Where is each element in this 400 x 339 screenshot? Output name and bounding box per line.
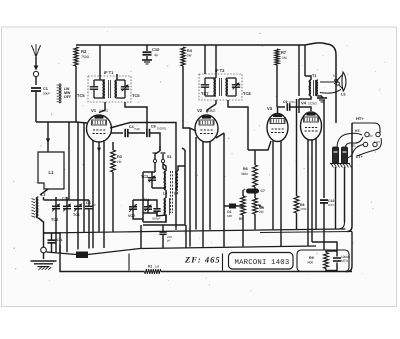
wire: V3 grid line: [248, 141, 271, 150]
resistor R5: [241, 196, 246, 215]
coil L2: [40, 189, 48, 195]
resistor R6: [253, 165, 258, 187]
wire: R3 to chassis: [112, 172, 114, 232]
wire: T1 primary top: [305, 76, 311, 80]
svg-text:1N5G: 1N5G: [206, 109, 216, 113]
wire: bus to IFT1 primary: [99, 45, 101, 80]
capacitor C9 padder: [153, 208, 160, 210]
wire: chassis bus A: [44, 229, 346, 233]
capacitor C5 padding: [159, 231, 166, 233]
wire: L2 to earth: [39, 218, 44, 247]
capacitor C14 electrolytic: [333, 147, 339, 163]
wire: [128, 132, 145, 134]
node: earth terminal circle: [41, 247, 47, 253]
svg-text:C11: C11: [57, 238, 63, 242]
svg-text:TC6: TC6: [132, 93, 140, 98]
trimmer TC7: [201, 84, 209, 86]
IF transformer T1 windings: [103, 80, 105, 98]
wire: [35, 77, 37, 85]
capacitor C15 electrolytic: [342, 147, 348, 163]
trimmer TC8: [232, 84, 240, 86]
wire: junction horizontal: [36, 121, 76, 123]
svg-text:TC5: TC5: [77, 93, 85, 98]
wires oscillator bottom: [133, 200, 157, 204]
svg-text:1M: 1M: [155, 265, 160, 269]
wire: [112, 142, 114, 150]
wire: R7 to V3 top: [276, 65, 278, 107]
hatch on L2 core: [32, 199, 36, 218]
svg-text:470k: 470k: [300, 207, 307, 211]
wire: IFT2 right down: [228, 100, 248, 150]
capacitor C9 coupling: [286, 103, 288, 111]
svg-text:IF T1: IF T1: [104, 70, 114, 75]
svg-text:50pF: 50pF: [43, 92, 50, 96]
wire: HT+ bracket: [352, 123, 380, 133]
trimmer TC6: [121, 86, 129, 88]
coil L4: [176, 171, 178, 190]
wire: antenna down: [35, 91, 37, 122]
capacitor C13: [336, 250, 338, 257]
capacitor C6: [229, 204, 236, 209]
valve V1 1A7G: [87, 115, 112, 142]
trimmer TC3: [148, 177, 156, 179]
svg-text:V1: V1: [91, 108, 97, 113]
wire: V3 top: [277, 107, 279, 114]
wire: C1 branch: [44, 233, 61, 253]
svg-text:T1: T1: [312, 74, 316, 78]
svg-text:75pF: 75pF: [134, 127, 141, 131]
svg-text:750Ω: 750Ω: [81, 55, 90, 59]
svg-text:C3: C3: [86, 201, 91, 205]
wire: [254, 214, 256, 229]
antenna: [32, 44, 41, 57]
svg-text:V4: V4: [301, 101, 307, 106]
wire: y242 link: [312, 242, 337, 250]
coil L4b: [164, 198, 166, 215]
svg-text:L5: L5: [341, 93, 345, 97]
wire: left frame down: [75, 66, 77, 122]
black gang coupling block: [76, 252, 88, 259]
svg-text:L2: L2: [41, 193, 45, 197]
switch S1 contacts: [155, 151, 160, 154]
wire: IFT2 secondary to V2: [215, 100, 217, 104]
wire: [159, 146, 161, 151]
scan speckle: [130, 71, 131, 72]
wire: osc returns to earth rail: [140, 225, 142, 248]
svg-text:TC7: TC7: [201, 91, 209, 96]
wire: battery leads curves: [337, 133, 362, 148]
battery plug contacts: [365, 132, 369, 136]
wire: B+ vertical x299: [298, 45, 300, 96]
resistor R7: [275, 49, 279, 65]
wire: [116, 74, 118, 80]
arrowhead on antenna lead: [34, 66, 39, 71]
wire: HT+ top bus: [76, 43, 336, 123]
wire: [178, 166, 185, 171]
wire: x196: [195, 137, 197, 230]
svg-text:C8: C8: [151, 125, 156, 129]
svg-text:R5: R5: [239, 217, 243, 221]
wire: V1 grid diagonal to AVC rail: [110, 123, 176, 230]
svg-text:2M: 2M: [117, 160, 122, 164]
resistor R8: [294, 196, 299, 213]
trimmer TC5: [90, 86, 98, 88]
coil L3: [164, 171, 166, 190]
ground below T1: [321, 96, 323, 98]
wire: [182, 148, 185, 150]
gang capacitor VC1: [63, 205, 71, 207]
svg-text:C1: C1: [43, 87, 48, 91]
box: output filter R9 C13: [297, 250, 349, 272]
gang capacitor VC2: [129, 206, 137, 208]
svg-text:R9: R9: [309, 256, 314, 260]
svg-text:TC1: TC1: [73, 213, 80, 217]
svg-text:5: 5: [333, 74, 335, 78]
wire: osc box left: [142, 172, 144, 222]
svg-text:2M: 2M: [259, 210, 264, 214]
wire: coil pack verticals: [68, 122, 70, 200]
wire: IFT1 secondary to V1 grid cap: [99, 102, 105, 113]
wire: V1 pin leads down: [92, 140, 94, 248]
wire: IFT1 right down: [125, 102, 147, 129]
svg-text:C10: C10: [152, 47, 160, 52]
wire: to L1 with arrow: [47, 122, 49, 152]
svg-text:100: 100: [227, 214, 232, 218]
wire: to oscillator switch: [150, 133, 161, 151]
svg-text:550pF: 550pF: [152, 217, 161, 221]
wire: x190: [189, 128, 191, 247]
svg-text:MARCONI 1403: MARCONI 1403: [235, 259, 290, 267]
IF transformer T1 dashed box: [88, 76, 131, 102]
wire: V1 left lead: [76, 122, 87, 123]
wire: trimmer row top rail: [44, 199, 90, 201]
svg-text:R7: R7: [281, 50, 287, 55]
capacitor C3: [85, 205, 93, 207]
wire: [154, 163, 156, 172]
wire: HT feed: [304, 45, 306, 76]
svg-text:HT+: HT+: [356, 116, 364, 121]
resistor VR: [253, 198, 258, 214]
wire: [278, 106, 286, 108]
wire: [242, 215, 244, 246]
wire: T1 primary bottom: [299, 96, 311, 99]
wire: osc box right: [143, 150, 185, 225]
svg-text:/400: /400: [307, 261, 313, 265]
coil L1 (frame aerial box): [38, 152, 64, 189]
svg-text:HT-: HT-: [355, 129, 360, 133]
svg-text:L1: L1: [48, 170, 54, 175]
wire: T1 secondary to speaker: [320, 82, 341, 93]
capacitor C12: [323, 100, 325, 198]
switch S2 wave-change contacts: [59, 84, 61, 86]
svg-text:MFD: MFD: [341, 259, 349, 263]
svg-text:V2: V2: [197, 108, 203, 113]
svg-text:OFF: OFF: [64, 95, 72, 99]
wire: [190, 128, 196, 131]
wire: [163, 164, 166, 171]
svg-text:0.04: 0.04: [328, 203, 334, 207]
capacitor C4: [124, 129, 126, 137]
ground (main earth): [31, 260, 57, 262]
capacitor C8: [146, 129, 148, 137]
resistor R4: [181, 47, 185, 66]
svg-text:pF: pF: [167, 239, 171, 243]
svg-text:S1: S1: [167, 155, 172, 159]
trimmer TC1: [74, 205, 82, 207]
svg-text:0.01: 0.01: [289, 100, 295, 104]
trimmer TC2: [52, 205, 60, 207]
svg-text:V3: V3: [267, 106, 273, 111]
wire: right frame: [347, 123, 352, 232]
node: antenna terminal circle: [33, 71, 38, 76]
svg-text:TC8: TC8: [243, 91, 251, 96]
wire: V2 pins down: [202, 141, 204, 247]
wire: bus B (earth rail): [46, 246, 316, 255]
box: ZF 465: [129, 254, 223, 271]
trimmer TC4: [144, 206, 152, 208]
wire: V4 pins down: [307, 139, 309, 246]
capacitor C7 electrolytic: [246, 189, 259, 194]
svg-text:C9: C9: [283, 100, 287, 104]
svg-text:VC2: VC2: [128, 214, 135, 218]
valve V4 1C5G: [301, 112, 322, 140]
svg-text:TC3: TC3: [141, 175, 148, 179]
resistor R1: [149, 271, 151, 273]
svg-text:L4: L4: [174, 192, 178, 196]
svg-text:0M: 0M: [187, 54, 192, 58]
resistor R2: [74, 47, 78, 66]
valve V2 1N5G: [195, 115, 218, 142]
svg-text:4μ: 4μ: [154, 53, 158, 57]
wire: to V4 anode: [298, 99, 300, 113]
IF transformer T2 dashed box: [199, 74, 242, 100]
wire: [254, 150, 256, 165]
svg-text:R6: R6: [243, 167, 248, 171]
svg-text:1C5G: 1C5G: [308, 102, 317, 106]
wire: V1 anode to C4: [111, 132, 123, 134]
svg-text:3MΩ: 3MΩ: [241, 172, 248, 176]
ground speaker: [317, 97, 327, 99]
resistor R3: [111, 150, 116, 172]
wire: right frame to bottom: [346, 232, 352, 272]
wire: electrolytic leads down: [335, 167, 337, 229]
wire: bus A2 segment: [260, 232, 352, 233]
svg-text:1A7G: 1A7G: [99, 109, 108, 113]
svg-text:1M: 1M: [282, 56, 287, 60]
wire: V2 anode diag: [216, 133, 224, 138]
resistor R1: [145, 269, 162, 274]
capacitor C1 (aerial): [31, 87, 41, 89]
wire: LT loop to bus: [339, 222, 345, 229]
svg-text:C7: C7: [261, 189, 265, 193]
wire: [254, 187, 256, 198]
svg-text:TC2: TC2: [51, 218, 58, 222]
speaker L5: [342, 72, 346, 91]
valve V3 1H5G: [267, 114, 288, 142]
wire: bottom frame: [60, 245, 352, 272]
capacitor C10: [146, 45, 148, 51]
svg-text:R3: R3: [117, 155, 122, 159]
transformer T1 output: [309, 80, 311, 96]
capacitor C11: [48, 239, 56, 241]
terminal hatches: [331, 164, 352, 168]
wire: R4 down to V2 grid: [183, 66, 190, 128]
wire: bus to IFT2: [215, 45, 217, 78]
svg-text:0.0001: 0.0001: [157, 127, 167, 131]
wire: [163, 163, 165, 170]
svg-text:R2: R2: [81, 49, 87, 54]
IF transformer T2 windings: [214, 78, 216, 96]
wire: [43, 253, 45, 259]
wire: [152, 187, 166, 189]
wire: C12 down to filter box: [323, 203, 325, 250]
label nameplate MARCONI 1403: [229, 253, 294, 270]
wire: [296, 213, 298, 229]
svg-text:R1: R1: [148, 265, 152, 269]
wire: R8 feed: [296, 99, 298, 196]
wire: [143, 171, 155, 173]
wire: to V4 grid: [290, 107, 311, 111]
ground below C10: [142, 59, 152, 61]
wire: V3 pins down: [272, 141, 274, 229]
resistor R9: [324, 253, 329, 269]
svg-text:ZF: 465: ZF: 465: [184, 255, 221, 265]
